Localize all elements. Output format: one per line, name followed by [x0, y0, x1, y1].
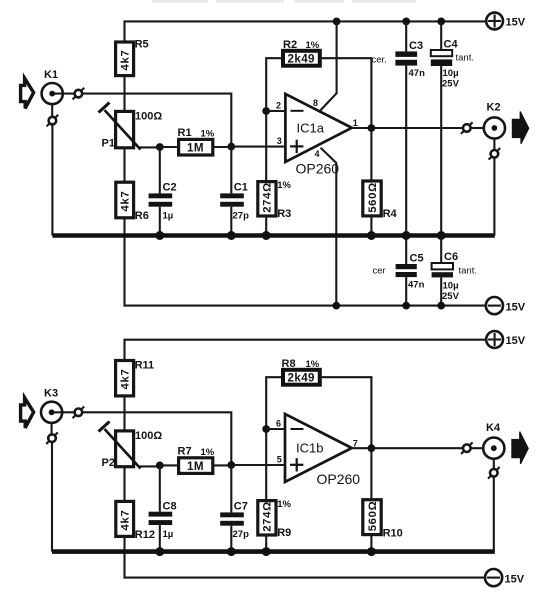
- wire K3 sleeve down: [51, 423, 53, 434]
- svg-text:560Ω: 560Ω: [367, 182, 379, 213]
- resistor R9 274R: [258, 499, 292, 552]
- wire R2 left leg: [266, 58, 283, 111]
- svg-text:R5: R5: [135, 39, 149, 51]
- +15V terminal symbol (bottom): [486, 331, 526, 348]
- svg-text:10µ: 10µ: [443, 281, 459, 292]
- node R4/rail: [367, 231, 376, 240]
- svg-text:274Ω: 274Ω: [262, 501, 274, 532]
- svg-text:1M: 1M: [187, 460, 204, 473]
- resistor R4 560R: [363, 128, 398, 236]
- wire node A2 down to C7: [230, 465, 232, 512]
- node C2/rail: [155, 231, 164, 240]
- wire plug to K2: [471, 127, 484, 129]
- resistor R6 4k7: [116, 148, 149, 222]
- wire K1 sleeve down: [51, 104, 53, 116]
- svg-text:5: 5: [277, 455, 282, 465]
- pin 8 supply lead: [313, 21, 337, 110]
- plug symbol on K4 ground: [488, 467, 500, 479]
- pin 7 output wire: [352, 439, 463, 449]
- svg-text:15V: 15V: [505, 574, 525, 586]
- svg-text:100Ω: 100Ω: [135, 430, 162, 442]
- wire K1 signal to node A corner: [82, 94, 231, 147]
- svg-text:1%: 1%: [201, 129, 215, 140]
- svg-text:274Ω: 274Ω: [262, 182, 274, 213]
- svg-text:27p: 27p: [233, 211, 250, 222]
- svg-text:4k7: 4k7: [120, 369, 132, 390]
- svg-text:R7: R7: [178, 446, 192, 458]
- svg-text:R9: R9: [277, 527, 291, 539]
- svg-text:C8: C8: [163, 501, 177, 513]
- wire R8 left leg: [266, 377, 283, 429]
- svg-text:C4: C4: [444, 39, 459, 51]
- svg-text:R6: R6: [135, 210, 149, 222]
- resistor R2 2k49: [283, 39, 320, 66]
- svg-text:1µ: 1µ: [163, 529, 174, 540]
- input arrow K3: [21, 398, 34, 428]
- +15V supply rail (top): [125, 21, 487, 42]
- capacitor C8 1u: [149, 465, 177, 551]
- svg-text:cer: cer: [373, 266, 386, 277]
- svg-text:R2: R2: [283, 39, 297, 51]
- wire K4 ground to rail end: [493, 477, 495, 552]
- svg-text:tant.: tant.: [456, 53, 475, 64]
- capacitor C6 10u tantalum: [432, 236, 477, 306]
- wire P1 wiper to node B: [139, 146, 160, 148]
- svg-text:C2: C2: [163, 182, 177, 194]
- svg-text:IC1a: IC1a: [297, 121, 325, 136]
- svg-text:10µ: 10µ: [443, 68, 459, 79]
- node pin6 (R8 left / R9): [262, 425, 270, 433]
- svg-text:1µ: 1µ: [163, 211, 174, 222]
- node C6 / -15V line: [437, 302, 445, 310]
- svg-text:1M: 1M: [187, 142, 204, 155]
- node A2 (K3 / R7 / pin5 / C7): [227, 461, 235, 469]
- svg-text:1%: 1%: [277, 499, 291, 510]
- faint cropped caption text at top: [152, 0, 416, 3]
- svg-text:6: 6: [276, 419, 281, 429]
- svg-text:7: 7: [353, 439, 358, 449]
- svg-text:2k49: 2k49: [288, 372, 316, 385]
- wire node A down to C1: [230, 147, 232, 194]
- node output (R8/R10): [368, 444, 376, 452]
- node C3/rail: [402, 231, 411, 240]
- plug symbol on K2 ground: [489, 148, 501, 160]
- wire R3 top leg: [265, 111, 267, 182]
- svg-text:C5: C5: [410, 253, 424, 265]
- node pin4 / -15V line: [332, 302, 340, 310]
- wire R6 bottom crossing rail down to -15V line: [125, 218, 486, 306]
- wire pin 2 stub: [266, 110, 285, 112]
- svg-text:R8: R8: [282, 358, 296, 370]
- node B2 (wiper / R7 / C8): [156, 462, 164, 470]
- svg-text:1%: 1%: [306, 40, 320, 51]
- +15V supply rail (bottom): [125, 340, 487, 361]
- svg-text:100Ω: 100Ω: [135, 111, 162, 123]
- node R9/rail: [262, 547, 271, 556]
- plug symbol on K1 signal line: [73, 88, 85, 100]
- output arrow K4: [512, 432, 528, 464]
- svg-text:C7: C7: [234, 501, 248, 513]
- pin 4 supply lead: [315, 148, 337, 306]
- node pin2 (R2 left / R3): [262, 107, 270, 115]
- node R3/rail: [262, 231, 271, 240]
- resistor R10 560R: [363, 448, 403, 551]
- svg-text:3: 3: [277, 136, 282, 146]
- svg-text:2k49: 2k49: [288, 53, 316, 66]
- svg-text:P1: P1: [102, 138, 115, 150]
- wire K2 sleeve: [493, 139, 495, 150]
- ground bus (bottom channel): [52, 549, 495, 554]
- svg-text:1%: 1%: [306, 359, 320, 370]
- svg-text:4k7: 4k7: [120, 50, 132, 71]
- potentiometer P2 100R: [99, 422, 163, 470]
- resistor R3 274R: [258, 180, 292, 236]
- -15V terminal symbol (top channel): [486, 297, 526, 314]
- ground bus (top channel): [52, 233, 494, 238]
- svg-text:15V: 15V: [506, 17, 526, 29]
- wire P2 wiper to node B2: [139, 465, 160, 467]
- wire node A2 to pin 5: [231, 464, 285, 466]
- op-amp U IC1a: [276, 94, 352, 162]
- wire R2 right leg to output node: [320, 58, 372, 128]
- resistor R8 2k49: [282, 358, 320, 385]
- svg-text:47n: 47n: [409, 68, 426, 79]
- BNC socket K3: [41, 388, 62, 423]
- svg-text:cer.: cer.: [372, 55, 387, 66]
- node: C3 to +15V rail: [402, 18, 410, 26]
- svg-text:K4: K4: [486, 422, 501, 434]
- plug symbol on K3 signal line: [73, 407, 85, 419]
- svg-text:1%: 1%: [201, 447, 215, 458]
- wire K1 ground to rail: [51, 124, 53, 235]
- output arrow K2: [512, 112, 528, 144]
- svg-text:tant.: tant.: [459, 266, 478, 277]
- wire K1 center to plug: [54, 93, 74, 95]
- svg-text:C6: C6: [444, 251, 458, 263]
- wire K3 center to plug: [54, 411, 74, 413]
- op-amp U IC1b: [276, 414, 352, 482]
- svg-text:R1: R1: [178, 127, 192, 139]
- capacitor C5 47n: [373, 236, 425, 306]
- -15V terminal symbol (bottom channel): [485, 569, 525, 586]
- svg-text:8: 8: [313, 98, 318, 108]
- wire K4 sleeve: [493, 459, 495, 469]
- svg-text:560Ω: 560Ω: [367, 501, 379, 532]
- capacitor C4 10u tantalum: [431, 21, 474, 235]
- wire R11 bottom to P2 top: [123, 396, 125, 431]
- BNC socket K4: [483, 422, 504, 459]
- capacitor C2 1u: [149, 147, 177, 236]
- svg-text:K3: K3: [44, 388, 58, 400]
- svg-text:R12: R12: [135, 529, 155, 541]
- node: pin8 line to +15V rail: [333, 18, 341, 26]
- svg-text:R10: R10: [383, 528, 403, 540]
- resistor R11 4k7: [116, 360, 155, 396]
- svg-text:C3: C3: [409, 40, 423, 52]
- node output (R2/R4): [368, 124, 376, 132]
- wire K3 ground to rail: [51, 442, 53, 552]
- pin 1 output wire: [352, 118, 463, 128]
- BNC socket K1: [42, 69, 63, 104]
- resistor R5 4k7: [116, 39, 149, 76]
- wire R8 right leg to output node: [320, 377, 372, 448]
- capacitor C1 27p: [220, 182, 249, 236]
- wire K3 signal to node A2 corner: [82, 412, 231, 465]
- node B (wiper / R1 / C2): [156, 143, 164, 151]
- node R10/rail: [367, 547, 376, 556]
- svg-text:4k7: 4k7: [120, 510, 132, 531]
- svg-text:47n: 47n: [408, 280, 425, 291]
- wire R5 bottom to P1 top: [123, 76, 125, 112]
- plug symbol on K1 ground line: [47, 115, 59, 127]
- svg-text:OP260: OP260: [296, 161, 340, 177]
- svg-text:OP260: OP260: [317, 471, 361, 487]
- input arrow K1: [21, 78, 34, 108]
- node: C4 to +15V rail: [437, 18, 445, 26]
- capacitor C3 47n: [372, 21, 426, 235]
- BNC socket K2: [484, 102, 505, 139]
- node C1/rail: [227, 231, 236, 240]
- plug symbol on K4 output line: [461, 442, 473, 454]
- svg-text:1%: 1%: [277, 180, 291, 191]
- svg-text:P2: P2: [102, 457, 115, 469]
- svg-text:25V: 25V: [442, 291, 460, 302]
- +15V terminal symbol: [486, 13, 526, 30]
- wire pin 6 stub: [266, 428, 285, 430]
- capacitor C7 27p: [220, 501, 249, 552]
- svg-text:25V: 25V: [442, 79, 460, 90]
- wire R9 top leg: [265, 429, 267, 501]
- wire node A to pin 3: [231, 146, 285, 148]
- svg-text:R3: R3: [277, 208, 291, 220]
- svg-text:2: 2: [276, 101, 281, 111]
- wire K2 ground to rail end: [493, 158, 495, 236]
- svg-text:4: 4: [315, 149, 320, 159]
- node A (K1 / R1 / pin3 / C1): [227, 143, 235, 151]
- svg-text:C1: C1: [234, 182, 248, 194]
- node C7/rail: [227, 547, 236, 556]
- svg-text:4k7: 4k7: [120, 191, 132, 212]
- svg-text:R4: R4: [383, 208, 398, 220]
- plug symbol on K3 ground line: [46, 432, 58, 444]
- svg-text:R11: R11: [135, 360, 155, 372]
- wire R12 bottom crossing rail down to -15V line: [125, 536, 485, 577]
- resistor R12 4k7: [116, 467, 155, 541]
- plug symbol on K2 output line: [461, 122, 473, 134]
- svg-text:1: 1: [353, 118, 358, 128]
- svg-text:15V: 15V: [506, 335, 526, 347]
- node C5 / -15V line: [402, 302, 410, 310]
- svg-text:IC1b: IC1b: [296, 441, 323, 456]
- resistor R1 1M: [160, 127, 232, 155]
- node C4/rail: [437, 231, 446, 240]
- svg-text:27p: 27p: [233, 529, 250, 540]
- resistor R7 1M: [160, 446, 232, 474]
- node C8/rail: [155, 547, 164, 556]
- svg-text:K1: K1: [44, 69, 58, 81]
- potentiometer P1 100R: [99, 103, 163, 150]
- svg-text:15V: 15V: [506, 302, 526, 314]
- svg-text:K2: K2: [487, 102, 501, 114]
- wire plug to K4: [471, 447, 484, 449]
